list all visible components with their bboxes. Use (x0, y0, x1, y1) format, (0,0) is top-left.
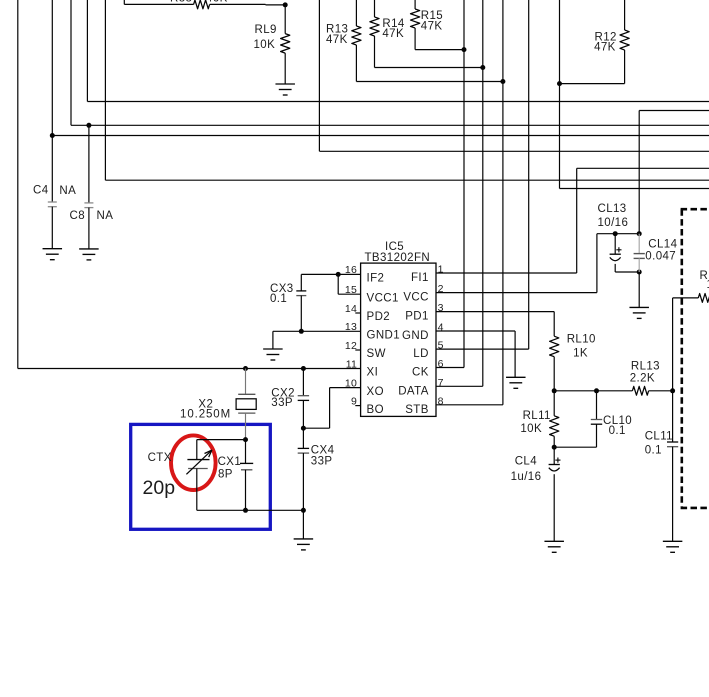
svg-text:47K: 47K (382, 28, 404, 40)
svg-text:STB: STB (405, 404, 429, 416)
svg-text:CX1: CX1 (218, 456, 242, 468)
svg-text:46K: 46K (206, 0, 228, 5)
svg-text:8: 8 (438, 395, 444, 407)
svg-text:RL13: RL13 (631, 361, 660, 373)
svg-text:PD2: PD2 (367, 311, 391, 323)
svg-text:11: 11 (346, 358, 357, 370)
svg-text:10K: 10K (520, 423, 542, 435)
svg-text:6: 6 (438, 358, 444, 370)
svg-text:47K: 47K (326, 34, 348, 46)
svg-text:CK: CK (412, 367, 429, 379)
svg-text:BO: BO (367, 404, 384, 416)
svg-text:20p: 20p (143, 477, 176, 499)
svg-text:0.047: 0.047 (645, 251, 676, 263)
svg-text:IF2: IF2 (367, 273, 385, 285)
svg-text:0.1: 0.1 (645, 445, 662, 457)
svg-text:3: 3 (438, 302, 444, 314)
svg-text:47K: 47K (594, 42, 616, 54)
svg-text:VCC1: VCC1 (367, 292, 399, 304)
svg-text:DATA: DATA (398, 385, 429, 397)
svg-text:XI: XI (367, 367, 379, 379)
svg-text:1u/16: 1u/16 (511, 471, 542, 483)
svg-text:XO: XO (367, 386, 384, 398)
svg-text:2: 2 (438, 283, 444, 295)
svg-text:0.1: 0.1 (609, 425, 626, 437)
svg-text:47K: 47K (421, 20, 443, 32)
svg-text:33P: 33P (311, 456, 333, 468)
svg-text:FI1: FI1 (411, 272, 429, 284)
svg-text:CL11: CL11 (645, 431, 673, 443)
svg-text:33P: 33P (271, 397, 293, 409)
svg-text:CL14: CL14 (648, 238, 677, 250)
svg-text:1K: 1K (573, 348, 588, 360)
svg-text:PD1: PD1 (405, 311, 429, 323)
svg-text:RL10: RL10 (567, 334, 596, 346)
svg-text:CL4: CL4 (515, 455, 538, 467)
svg-text:VCC: VCC (403, 292, 428, 304)
svg-text:10.250M: 10.250M (180, 409, 231, 421)
svg-text:7: 7 (438, 377, 444, 389)
svg-text:14: 14 (345, 303, 357, 315)
svg-text:12: 12 (345, 340, 357, 352)
svg-text:R88: R88 (170, 0, 192, 5)
svg-text:NA: NA (59, 185, 76, 197)
svg-text:GND1: GND1 (367, 330, 401, 342)
svg-text:TB31202FN: TB31202FN (365, 252, 431, 264)
svg-text:5: 5 (438, 340, 444, 352)
svg-text:LD: LD (413, 348, 429, 360)
svg-text:GND: GND (402, 330, 429, 342)
svg-text:1: 1 (438, 264, 444, 276)
svg-text:10K: 10K (254, 39, 276, 51)
svg-text:C8: C8 (70, 210, 86, 222)
svg-text:RL11: RL11 (523, 410, 551, 422)
svg-text:RL9: RL9 (255, 24, 277, 36)
svg-text:2.2K: 2.2K (630, 373, 655, 385)
svg-text:C4: C4 (33, 185, 49, 197)
svg-text:CTX: CTX (148, 452, 172, 464)
svg-text:NA: NA (97, 210, 114, 222)
svg-text:8P: 8P (218, 468, 233, 480)
svg-text:CL13: CL13 (598, 203, 627, 215)
svg-text:0.1: 0.1 (270, 293, 287, 305)
svg-text:4: 4 (438, 322, 444, 334)
svg-text:SW: SW (367, 348, 386, 360)
svg-text:10/16: 10/16 (598, 217, 629, 229)
